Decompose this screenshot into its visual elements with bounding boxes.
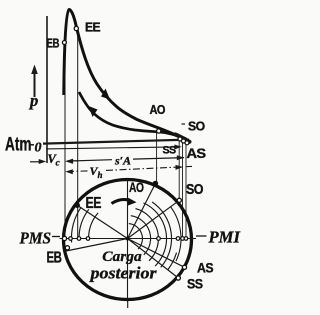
vertical diameter	[127, 180, 129, 308]
p axis (vertical)	[46, 16, 48, 163]
p axis arrow	[31, 65, 38, 98]
spoke to AS	[128, 239, 185, 268]
left angle arc	[71, 207, 81, 242]
svg-text:h: h	[98, 170, 103, 180]
spoke to EB	[66, 239, 128, 252]
right angle arc	[129, 224, 143, 250]
Vh dimension line (dash-dot)	[67, 166, 192, 171]
svg-text:0: 0	[35, 141, 42, 156]
angle arc near SO	[171, 207, 181, 261]
svg-text:SO: SO	[188, 120, 205, 134]
svg-text:EE: EE	[85, 21, 100, 35]
left angle arc	[89, 213, 99, 237]
svg-text:AS: AS	[197, 261, 214, 276]
svg-text:PMI: PMI	[208, 228, 242, 247]
markers SO SS AS cluster (p-V)	[178, 137, 189, 145]
atmospheric level line	[46, 147, 177, 149]
svg-text:AS: AS	[187, 145, 206, 161]
AS construction vertical	[185, 141, 187, 239]
svg-text:SO: SO	[186, 182, 203, 198]
svg-text:AO: AO	[129, 179, 144, 195]
marker AO (p-V)	[157, 129, 161, 133]
svg-text:p: p	[28, 91, 38, 110]
marker SO (circle)	[177, 198, 181, 202]
right angle arc	[131, 216, 151, 255]
marker EB (p-V)	[62, 41, 66, 45]
spoke to SS	[128, 239, 179, 279]
marker AO (circle)	[153, 181, 157, 185]
Vc dimension arrows	[30, 160, 78, 163]
EE construction vertical	[77, 30, 79, 239]
spoke to EE	[77, 205, 127, 238]
right angle arc	[152, 202, 171, 267]
rotation direction arrow	[112, 200, 131, 204]
compression (lower) curve	[79, 92, 186, 139]
arrow on compression curve	[89, 106, 98, 117]
marker SS (circle)	[176, 276, 180, 280]
svg-text:SS: SS	[187, 277, 203, 292]
svg-text:SS: SS	[163, 145, 176, 157]
dash between Atm and 0	[30, 144, 34, 146]
svg-text:PMS: PMS	[19, 229, 51, 248]
spoke to AO	[128, 184, 156, 239]
marker EB (circle)	[65, 246, 69, 250]
arrow on expansion curve	[101, 89, 110, 100]
TDC construction vertical through EB	[64, 40, 66, 239]
Atm axis (horizontal)	[43, 140, 189, 144]
spoke to SO	[128, 200, 180, 238]
marker AS (circle)	[182, 265, 186, 269]
marker PMS (circle)	[62, 236, 66, 240]
svg-text:c: c	[56, 159, 61, 169]
horizontal diameter PMS-PMI	[52, 236, 60, 238]
dash before SO label	[182, 123, 186, 125]
svg-text:posterior: posterior	[88, 264, 157, 283]
SO construction vertical	[178, 137, 180, 200]
hub dot	[126, 237, 130, 241]
markers on diameter	[69, 237, 188, 241]
sA dimension line	[67, 158, 185, 162]
extra angle arc near AS/SS	[168, 253, 177, 270]
svg-text:EE: EE	[86, 195, 102, 212]
curve end blob	[176, 135, 190, 142]
svg-text:s′A: s′A	[114, 154, 131, 168]
svg-text:Atm: Atm	[5, 135, 32, 156]
svg-text:EB: EB	[47, 37, 60, 51]
left angle arc	[79, 209, 89, 239]
marker EE (circle)	[75, 203, 79, 207]
right angle arc	[136, 209, 159, 261]
svg-text:AO: AO	[150, 103, 166, 117]
AO construction vertical	[156, 131, 158, 184]
marker EE (p-V)	[74, 26, 78, 30]
SS construction vertical	[182, 140, 184, 239]
expansion curve (peak then down to SS)	[64, 9, 186, 139]
svg-text:EB: EB	[47, 250, 62, 267]
right angle arc	[143, 203, 166, 266]
crank circle	[64, 180, 192, 300]
